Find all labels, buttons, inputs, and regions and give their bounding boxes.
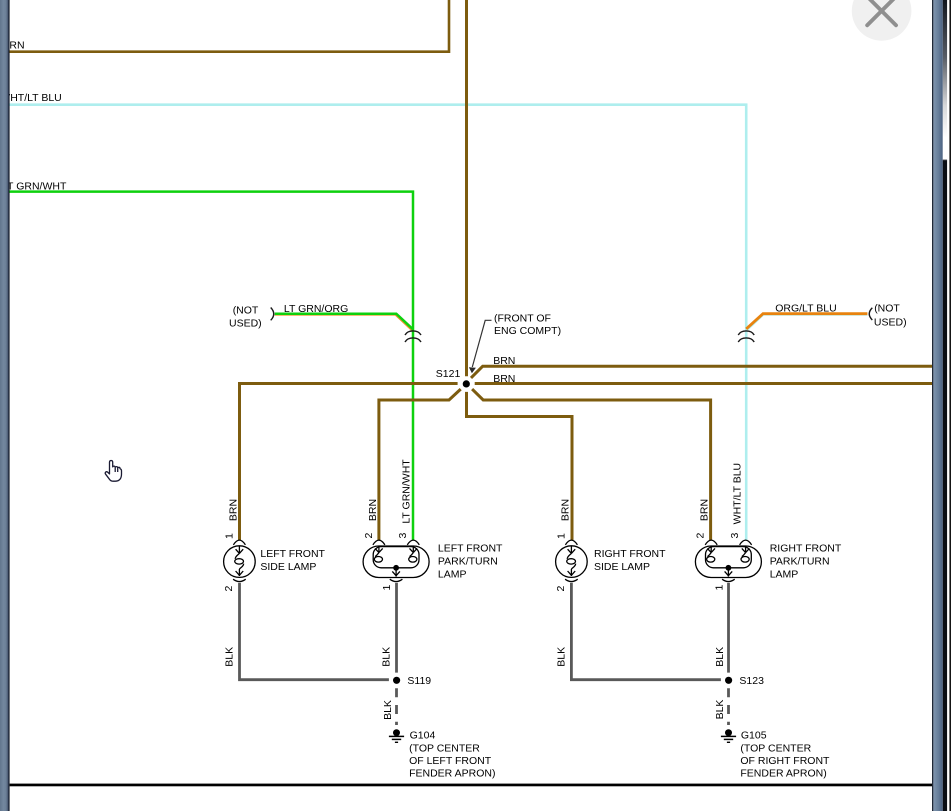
svg-text:USED): USED) — [229, 318, 262, 330]
svg-text:WHT/LT BLU: WHT/LT BLU — [732, 463, 744, 524]
svg-text:(TOP CENTER: (TOP CENTER — [409, 742, 480, 754]
svg-text:LT GRN/WHT: LT GRN/WHT — [400, 459, 412, 524]
svg-text:1: 1 — [713, 585, 725, 591]
svg-text:BRN: BRN — [493, 355, 515, 367]
svg-text:OF RIGHT FRONT: OF RIGHT FRONT — [740, 755, 830, 767]
svg-text:BLK: BLK — [556, 647, 568, 667]
svg-text:2: 2 — [363, 533, 375, 539]
svg-text:LT GRN/ORG: LT GRN/ORG — [284, 303, 348, 315]
svg-text:2: 2 — [223, 586, 235, 592]
svg-text:LEFT FRONT: LEFT FRONT — [260, 548, 325, 560]
svg-text:BRN: BRN — [493, 373, 515, 385]
svg-text:S121: S121 — [436, 368, 461, 380]
svg-text:(NOT: (NOT — [233, 305, 259, 317]
svg-text:BLK: BLK — [382, 700, 394, 720]
svg-text:1: 1 — [224, 533, 236, 539]
svg-text:BLK: BLK — [714, 647, 726, 667]
svg-text:ORG/LT BLU: ORG/LT BLU — [775, 303, 836, 315]
svg-text:FENDER APRON): FENDER APRON) — [409, 768, 495, 780]
svg-text:LAMP: LAMP — [438, 568, 467, 580]
svg-text:3: 3 — [729, 533, 741, 539]
svg-text:(TOP CENTER: (TOP CENTER — [740, 742, 811, 754]
svg-text:(FRONT OF: (FRONT OF — [494, 313, 551, 325]
svg-text:RIGHT FRONT: RIGHT FRONT — [594, 548, 666, 560]
svg-text:BRN: BRN — [560, 499, 572, 521]
svg-text:OF LEFT FRONT: OF LEFT FRONT — [409, 755, 492, 767]
svg-text:BRN: BRN — [699, 499, 711, 521]
svg-text:G104: G104 — [410, 730, 436, 742]
svg-text:2: 2 — [695, 533, 707, 539]
svg-text:FENDER APRON): FENDER APRON) — [740, 768, 826, 780]
svg-text:S119: S119 — [407, 675, 431, 687]
svg-text:LEFT FRONT: LEFT FRONT — [438, 543, 503, 555]
svg-text:G105: G105 — [741, 730, 767, 742]
svg-text:3: 3 — [397, 533, 409, 539]
svg-text:USED): USED) — [874, 317, 907, 329]
svg-text:PARK/TURN: PARK/TURN — [770, 555, 830, 567]
svg-text:LAMP: LAMP — [770, 568, 799, 580]
svg-text:1: 1 — [381, 585, 393, 591]
svg-text:1: 1 — [556, 533, 568, 539]
svg-text:BLK: BLK — [224, 647, 236, 667]
svg-text:S123: S123 — [739, 675, 764, 687]
svg-text:LT GRN/WHT: LT GRN/WHT — [2, 181, 67, 193]
svg-text:SIDE LAMP: SIDE LAMP — [594, 561, 650, 573]
svg-text:BRN: BRN — [367, 499, 379, 521]
svg-text:(NOT: (NOT — [874, 303, 900, 315]
svg-text:BLK: BLK — [381, 647, 393, 667]
svg-text:2: 2 — [555, 586, 567, 592]
svg-text:BRN: BRN — [228, 499, 240, 521]
svg-text:ENG COMPT): ENG COMPT) — [494, 325, 561, 337]
svg-text:BLK: BLK — [714, 700, 726, 720]
svg-text:SIDE LAMP: SIDE LAMP — [260, 561, 316, 573]
svg-text:PARK/TURN: PARK/TURN — [438, 555, 498, 567]
svg-text:RIGHT FRONT: RIGHT FRONT — [770, 543, 842, 555]
